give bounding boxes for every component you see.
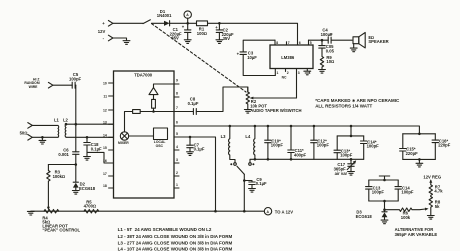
inductor L1 xyxy=(32,117,59,137)
alternative box bottom xyxy=(369,200,398,211)
svg-text:7: 7 xyxy=(288,41,290,45)
pin 8 xyxy=(174,92,179,97)
pin 1 xyxy=(174,183,179,188)
svg-text:2: 2 xyxy=(176,171,178,175)
svg-text:35V: 35V xyxy=(223,36,231,41)
svg-text:100Ω: 100Ω xyxy=(197,31,207,36)
pin 18 xyxy=(103,184,114,188)
node C2 junction xyxy=(218,22,221,25)
pin 1 xyxy=(275,69,278,76)
speaker SPKR 8 ohm xyxy=(353,33,389,48)
50 ohm input terminals xyxy=(20,123,33,141)
wire plus to switch xyxy=(113,22,143,24)
svg-text:5k: 5k xyxy=(435,204,440,209)
svg-text:0.1µF: 0.1µF xyxy=(256,181,267,186)
ground C15/C16 xyxy=(416,163,423,167)
resistor R5 4700 ohm xyxy=(84,199,99,213)
node C9 branch xyxy=(243,179,246,182)
wire pin5 to output node xyxy=(309,39,323,41)
svg-text:0.001: 0.001 xyxy=(58,152,69,157)
svg-text:0.1µF: 0.1µF xyxy=(194,147,205,152)
svg-text:OSC: OSC xyxy=(156,144,164,148)
svg-text:2: 2 xyxy=(287,71,289,75)
output node junction xyxy=(321,39,324,42)
svg-text:WIRE: WIRE xyxy=(29,85,39,89)
svg-text:100pF: 100pF xyxy=(367,144,380,149)
svg-text:*CAPS MARKED ∗ ARE NPO CERAMIC: *CAPS MARKED ∗ ARE NPO CERAMIC xyxy=(315,98,400,103)
svg-text:6: 6 xyxy=(176,121,178,125)
pin 13 xyxy=(103,120,114,124)
op-amp U2 LM386 xyxy=(270,45,313,69)
ground R8 xyxy=(427,216,434,220)
capacitor C4 100uF output xyxy=(321,27,352,43)
ground C9 xyxy=(249,189,256,193)
switch S1 (on R2) xyxy=(143,20,150,24)
svg-text:L1 - 5T 24 AWG SCRAMBLE WOUND: L1 - 5T 24 AWG SCRAMBLE WOUND ON L2 xyxy=(118,227,212,232)
svg-text:3: 3 xyxy=(298,71,300,75)
local oscillator block xyxy=(129,128,168,148)
node Vcc on bus xyxy=(214,210,217,213)
inductor L4 xyxy=(245,126,255,159)
svg-text:11: 11 xyxy=(103,95,107,99)
svg-text:0.1µF: 0.1µF xyxy=(91,147,102,152)
capacitor C7 0.1uF Vcc bypass xyxy=(187,136,205,152)
capacitor C14 100pF xyxy=(361,136,380,159)
svg-text:100µF: 100µF xyxy=(321,32,333,37)
pin 3 xyxy=(174,158,179,163)
pin 9 xyxy=(174,79,179,84)
wire power rail to LM386 pin6 xyxy=(219,23,297,45)
capacitor C13 100pF xyxy=(334,136,353,159)
node C18 junction xyxy=(86,136,89,139)
wire node A to R1 xyxy=(188,22,197,24)
node A junction xyxy=(186,22,189,25)
node C17 xyxy=(350,158,353,161)
ammeter point A xyxy=(184,11,191,23)
diode D1 1N4001 xyxy=(157,9,172,26)
wire pin5 Vcc to 12V bus xyxy=(190,137,216,211)
inductor L3 xyxy=(221,126,235,163)
resistor R6 100k xyxy=(385,208,429,220)
potentiometer R4 5k linear xyxy=(42,210,80,233)
switch contact L4 xyxy=(249,159,255,165)
pin 5 xyxy=(174,132,190,137)
band switch blade xyxy=(237,166,244,174)
internal IF amp triangle xyxy=(149,84,174,95)
alternative note xyxy=(395,227,438,237)
capacitor C1 220uF 35V xyxy=(170,23,191,40)
capacitor C10 100pF xyxy=(265,125,284,161)
pin 4 xyxy=(174,145,179,150)
ground D3 xyxy=(381,220,388,224)
pin 2 xyxy=(174,171,179,176)
pin 8 xyxy=(275,40,278,45)
svg-text:4: 4 xyxy=(176,145,178,149)
ground R9 xyxy=(319,70,326,74)
dashed mechanical link to R2 xyxy=(152,24,247,93)
svg-text:L2: L2 xyxy=(63,117,69,122)
svg-text:5: 5 xyxy=(176,132,178,136)
svg-text:L1: L1 xyxy=(54,117,60,122)
svg-text:12V: 12V xyxy=(98,29,106,34)
svg-text:SPEAKER: SPEAKER xyxy=(368,39,388,44)
ground bus left xyxy=(27,211,34,215)
pin 15 xyxy=(103,146,114,150)
ground speaker xyxy=(350,48,357,52)
svg-text:4.7k: 4.7k xyxy=(434,189,443,194)
svg-text:100pF: 100pF xyxy=(317,143,330,148)
ground 50 ohm xyxy=(39,137,46,144)
capacitor C13 100pF (alt) xyxy=(366,180,385,201)
svg-text:1: 1 xyxy=(176,183,178,187)
capacitor C3 10uF gain xyxy=(237,40,276,75)
pin 10 xyxy=(103,82,114,86)
svg-text:NC: NC xyxy=(282,76,287,80)
svg-text:ALL RESISTORS 1/4 WATT: ALL RESISTORS 1/4 WATT xyxy=(315,104,372,109)
varactor diode D2 ECG618 xyxy=(73,165,96,191)
svg-text:ECG618: ECG618 xyxy=(79,186,96,191)
12V - terminal xyxy=(103,35,113,41)
svg-text:100pF: 100pF xyxy=(372,190,385,195)
svg-text:TDA7000: TDA7000 xyxy=(134,73,153,78)
12V bus line xyxy=(31,210,264,212)
pin 2 NC xyxy=(282,69,289,80)
wire minus to ground xyxy=(113,38,127,41)
potentiometer R2 10k audio taper xyxy=(246,87,301,113)
node C5/C6 junction xyxy=(75,123,78,126)
C15/C16 group bottom to ground xyxy=(403,158,436,163)
capacitor C15 220pF xyxy=(400,134,419,160)
wire L2 node to pin 13 xyxy=(66,123,114,125)
capacitor C2 220uF 35V xyxy=(215,23,234,41)
capacitor C5 100pF xyxy=(53,72,82,88)
IC U1 TDA7000 xyxy=(114,71,175,198)
node L4 bottom xyxy=(254,158,257,161)
node L2 top xyxy=(65,123,68,126)
svg-text:50Ω: 50Ω xyxy=(20,130,28,135)
node 50ohm ground junction xyxy=(41,136,44,139)
svg-text:220pF: 220pF xyxy=(406,151,419,156)
svg-text:0.05: 0.05 xyxy=(326,48,335,53)
potentiometer R8 5k xyxy=(429,197,441,216)
12V + terminal xyxy=(98,21,113,34)
varactor node wire xyxy=(48,164,75,166)
svg-text:100kΩ: 100kΩ xyxy=(53,174,66,179)
resistor R9 10 ohm xyxy=(320,53,334,70)
wire C18 node to pin 16 xyxy=(87,152,114,163)
pin 7 xyxy=(287,41,290,45)
antenna HI-Z random wire terminal xyxy=(24,78,52,89)
node varactor junction xyxy=(75,163,78,166)
svg-text:10: 10 xyxy=(103,82,107,86)
capacitor C8 0.1uF audio out xyxy=(188,87,248,115)
pin 11 xyxy=(103,95,113,99)
svg-text:7: 7 xyxy=(176,106,178,110)
svg-text:35V: 35V xyxy=(171,36,179,41)
resistor R7 4.7k xyxy=(429,184,443,196)
alternative box top xyxy=(369,179,398,182)
wire L2 bottom to pin 14 xyxy=(66,136,114,138)
svg-text:L2 - 38T 24 AWG CLOSE WOUND ON: L2 - 38T 24 AWG CLOSE WOUND ON 3/8 in DI… xyxy=(118,234,233,239)
svg-text:1: 1 xyxy=(277,71,279,75)
wire switch to D1 xyxy=(152,22,165,24)
svg-text:8: 8 xyxy=(176,92,178,96)
wire D1 to node A xyxy=(170,22,188,24)
R2 wiper to pin3 xyxy=(254,97,297,99)
ground C17 xyxy=(348,172,355,176)
svg-text:100pF: 100pF xyxy=(340,153,353,158)
svg-text:6: 6 xyxy=(299,41,301,45)
svg-text:AUDIO TAPER W/SWITCH: AUDIO TAPER W/SWITCH xyxy=(250,108,301,113)
svg-text:10Ω: 10Ω xyxy=(326,59,334,64)
inductor L2 xyxy=(63,117,69,137)
pin 17 xyxy=(103,172,114,176)
node L3 top xyxy=(229,125,232,128)
varactor diode D3 ECG618 xyxy=(356,210,388,220)
svg-text:17: 17 xyxy=(103,172,107,176)
node osc common on bus xyxy=(243,210,246,213)
svg-text:4700Ω: 4700Ω xyxy=(84,204,97,209)
svg-text:L3 - 27T 24 AWG CLOSE WOUND ON: L3 - 27T 24 AWG CLOSE WOUND ON 3/8 in DI… xyxy=(118,240,233,245)
capacitor C9 0.1uF xyxy=(244,177,267,189)
ground D2 xyxy=(72,191,79,195)
pin 16 xyxy=(103,159,114,163)
svg-text:100pF: 100pF xyxy=(401,190,414,195)
ground C7 xyxy=(187,152,194,156)
svg-text:ECG618: ECG618 xyxy=(356,214,373,219)
svg-text:10µF: 10µF xyxy=(247,55,257,60)
R3 wiper arrow on R4 xyxy=(47,207,50,211)
svg-text:3: 3 xyxy=(176,158,178,162)
wire C5 down to L2 node xyxy=(75,85,77,124)
resistor R3 100k xyxy=(47,165,65,208)
capacitor C18 0.1uF xyxy=(84,137,102,156)
C15/C16 group top xyxy=(403,133,436,136)
point A to 12V xyxy=(264,208,293,215)
capacitor C6 0.001 xyxy=(58,124,79,164)
12V REG supply xyxy=(423,174,441,184)
resistor R1 100 ohm xyxy=(197,21,208,36)
variable capacitor C17 365pF xyxy=(334,159,357,176)
pin 7 xyxy=(174,106,193,111)
pin 3 xyxy=(297,69,300,99)
pin 14 xyxy=(103,133,114,137)
svg-text:MIXER: MIXER xyxy=(118,141,129,145)
capacitor C16 220pF xyxy=(432,134,451,160)
switch contact L3 xyxy=(230,163,236,166)
ground (12V minus) xyxy=(123,41,130,45)
switch common to 12V bus xyxy=(243,174,245,211)
capacitor C11 400pF xyxy=(288,125,307,161)
svg-text:0.1µF: 0.1µF xyxy=(188,101,199,106)
ground C2 xyxy=(216,40,223,44)
svg-text:air var: air var xyxy=(335,171,348,176)
svg-text:8: 8 xyxy=(276,41,278,45)
svg-text:L4 - 10T 24 AWG CLOSE WOUND ON: L4 - 10T 24 AWG CLOSE WOUND ON 3/8 in DI… xyxy=(118,246,233,251)
wire L1 bottom to ground node xyxy=(32,136,58,138)
internal resistor to mixer xyxy=(125,110,154,132)
C13/C14 trim group stub xyxy=(337,125,364,138)
svg-text:1N4001: 1N4001 xyxy=(157,13,172,18)
svg-text:365pF AIR VARIABLE: 365pF AIR VARIABLE xyxy=(395,232,438,237)
mixer xyxy=(118,132,129,145)
capacitor C14 100pF (alt) xyxy=(395,180,414,201)
capacitor C12 100pF xyxy=(311,125,330,160)
ground R2 xyxy=(244,110,251,114)
svg-text:TO A 12V: TO A 12V xyxy=(275,209,293,214)
ground C18 xyxy=(84,157,91,161)
svg-text:LM386: LM386 xyxy=(281,55,295,60)
svg-text:18: 18 xyxy=(103,184,107,188)
svg-text:“PEAK” CONTROL: “PEAK” CONTROL xyxy=(42,228,80,233)
svg-text:100pF: 100pF xyxy=(69,76,82,81)
oscillator rail from pin 6 xyxy=(174,126,419,134)
ground pin4 LM386 xyxy=(304,71,311,75)
svg-text:220pF: 220pF xyxy=(438,143,451,148)
note text xyxy=(315,98,400,109)
internal resistor xyxy=(152,95,156,112)
svg-text:5: 5 xyxy=(310,41,312,45)
pin 12 xyxy=(103,109,114,113)
alternative tuner terminal xyxy=(379,176,389,180)
svg-text:100k: 100k xyxy=(401,215,411,220)
coil winding notes xyxy=(118,227,233,251)
svg-text:9: 9 xyxy=(176,79,178,83)
ladder bottom line xyxy=(255,158,364,160)
capacitor C05 0.05 xyxy=(319,40,335,53)
svg-text:15: 15 xyxy=(103,146,107,150)
node L4 top xyxy=(254,125,257,128)
ground C1 xyxy=(184,40,191,44)
internal node to pin7 xyxy=(152,110,155,113)
svg-text:100pF: 100pF xyxy=(271,143,284,148)
wire R1 to C2 node xyxy=(208,22,220,24)
svg-text:L4: L4 xyxy=(245,134,251,139)
svg-text:12: 12 xyxy=(103,109,107,113)
svg-text:L3: L3 xyxy=(221,134,227,139)
svg-text:400pF: 400pF xyxy=(294,153,307,158)
svg-text:12V REG: 12V REG xyxy=(423,174,441,179)
pin 4 xyxy=(307,69,310,76)
pin 5 xyxy=(309,40,312,45)
